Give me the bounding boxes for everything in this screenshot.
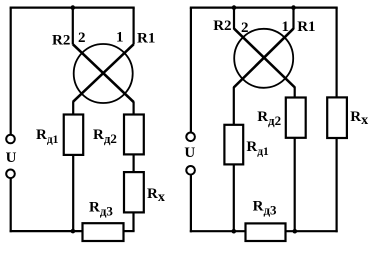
svg-text:2: 2 <box>78 30 86 46</box>
svg-text:R2: R2 <box>213 18 231 34</box>
svg-text:2: 2 <box>241 20 249 36</box>
svg-text:1: 1 <box>116 30 124 46</box>
svg-text:R1: R1 <box>137 30 155 46</box>
svg-text:U: U <box>6 150 17 166</box>
svg-text:R1: R1 <box>297 19 315 35</box>
svg-text:1: 1 <box>282 19 290 35</box>
svg-text:R2: R2 <box>52 32 70 48</box>
svg-text:U: U <box>184 145 195 161</box>
